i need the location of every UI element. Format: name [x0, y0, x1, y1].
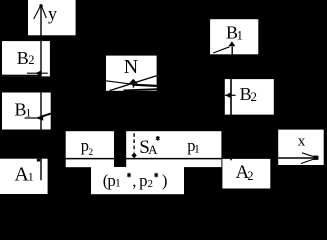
svg-text:): ) — [162, 171, 168, 190]
black sliver under B2 left box bottom-left part — [2, 75, 40, 77]
svg-text:,: , — [132, 171, 136, 190]
SA diamond arrowhead — [131, 153, 136, 159]
x axis open arrowhead lower prong — [301, 158, 318, 164]
svg-text:2: 2 — [88, 148, 93, 158]
B1 left box — [2, 93, 51, 130]
SA superscript star — [156, 136, 160, 141]
p2 superscript star — [154, 173, 158, 178]
svg-text:x: x — [298, 134, 306, 150]
A2 box — [222, 159, 270, 189]
B2 right vertical line — [230, 79, 232, 160]
svg-text:B: B — [17, 48, 29, 68]
N curve: rising line — [110, 76, 157, 91]
B1 right arrow stem — [231, 47, 233, 55]
B2 left arrow line — [27, 72, 48, 74]
SA dashed line — [133, 133, 135, 152]
p2 strip — [66, 131, 114, 167]
B2 right arrow tick — [225, 94, 236, 96]
N curve: thick segment to right edge — [133, 85, 157, 86]
x axis line (over x box) — [278, 157, 317, 159]
A1 box — [0, 159, 48, 194]
svg-text:y: y — [48, 3, 57, 23]
B2 right box — [225, 79, 274, 115]
B2 left box — [2, 41, 50, 76]
x-axis label box — [278, 130, 324, 165]
svg-text:p: p — [139, 171, 147, 190]
N arrowhead — [129, 79, 138, 84]
x axis open arrowhead upper prong — [302, 153, 318, 158]
y-axis label box — [28, 0, 76, 35]
svg-text:1: 1 — [237, 28, 243, 42]
y axis line — [40, 5, 42, 180]
B2 left arrowhead — [35, 71, 40, 76]
svg-text:2: 2 — [247, 169, 253, 183]
black gap between p2 strip and SA strip — [114, 131, 126, 167]
SA p1 strip — [126, 131, 221, 167]
B1 left arrowhead — [36, 115, 44, 121]
B1 left arrow line — [25, 117, 38, 119]
black notch at A1 top — [37, 159, 40, 162]
svg-text:2: 2 — [148, 178, 154, 190]
y axis arrowhead right leg — [41, 6, 46, 19]
p1 superscript star — [127, 173, 131, 178]
y axis arrowhead dot — [39, 4, 42, 7]
svg-text:1: 1 — [194, 142, 200, 156]
y axis arrowhead left leg — [34, 6, 41, 20]
svg-text:N: N — [124, 56, 138, 78]
B2 right arrowhead — [225, 93, 230, 98]
B1 left slanted tail — [43, 114, 51, 117]
x axis solid head — [313, 156, 318, 160]
N curve: left nearly-horizontal line — [106, 81, 133, 85]
N box — [106, 56, 157, 91]
svg-text:1: 1 — [115, 177, 121, 189]
B1 right arrow slanted line — [213, 47, 229, 53]
N curve: bottom horizontal line — [124, 89, 157, 90]
x axis line (over p strips) — [50, 158, 221, 160]
svg-text:1: 1 — [28, 170, 34, 184]
B1 right arrowhead — [228, 41, 235, 46]
svg-text:2: 2 — [28, 53, 34, 67]
(p1*,p2*) box — [91, 167, 184, 194]
svg-text:2: 2 — [251, 89, 258, 104]
B1 right box — [210, 19, 258, 54]
N arrow stem — [132, 84, 134, 88]
svg-text:A: A — [148, 142, 158, 157]
